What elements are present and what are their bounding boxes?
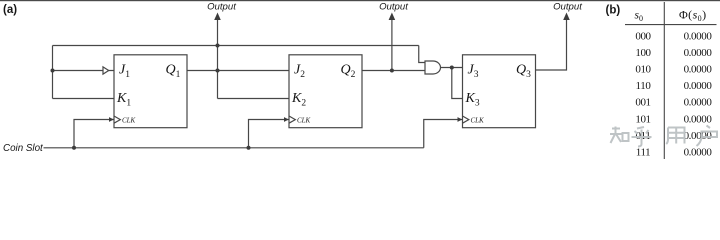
flip-flop U1 box bbox=[114, 55, 187, 128]
watermark glyph hu bbox=[632, 127, 652, 147]
wire branch to K2 bbox=[218, 98, 290, 100]
wire CLK2 from coin rail bbox=[249, 120, 290, 148]
svg-text:Φ(s0): Φ(s0) bbox=[679, 8, 706, 24]
wire feedback drop to AND input bbox=[419, 46, 425, 63]
table header rule bbox=[625, 24, 717, 26]
arrowhead output1 bbox=[214, 13, 221, 21]
wire output1 riser bbox=[217, 19, 219, 99]
watermark glyph hu2 bbox=[697, 126, 718, 147]
svg-text:0.0000: 0.0000 bbox=[684, 47, 713, 59]
svg-text:J1: J1 bbox=[119, 63, 130, 81]
svg-text:Output: Output bbox=[553, 2, 582, 13]
svg-text:Q1: Q1 bbox=[166, 63, 181, 81]
svg-text:Output: Output bbox=[207, 2, 236, 13]
arrowhead CLK1 bbox=[109, 117, 114, 122]
svg-text:001: 001 bbox=[635, 97, 650, 109]
node J1K1 junction bbox=[51, 69, 55, 73]
AND gate U4 bbox=[425, 61, 441, 74]
svg-text:CLK: CLK bbox=[122, 117, 136, 125]
svg-text:010: 010 bbox=[635, 64, 651, 76]
clock triangle U3 bbox=[463, 116, 469, 123]
wire J1 input bbox=[53, 70, 115, 72]
flip-flop U3 box bbox=[463, 55, 536, 128]
svg-text:Q3: Q3 bbox=[516, 63, 531, 81]
wire Q1 to J2 bbox=[187, 70, 289, 72]
arrowhead CLK2 bbox=[284, 117, 289, 122]
svg-text:110: 110 bbox=[636, 80, 652, 92]
svg-text:0.0000: 0.0000 bbox=[684, 147, 713, 159]
wire Q3 out bbox=[536, 19, 567, 70]
watermark glyph zhi bbox=[610, 127, 622, 144]
top border line bbox=[0, 0, 720, 1]
wire coin slot rail bbox=[44, 147, 424, 149]
node feedback line junction bbox=[216, 44, 220, 48]
table column divider bbox=[663, 2, 665, 159]
svg-text:Coin Slot: Coin Slot bbox=[3, 143, 44, 154]
clock triangle U2 bbox=[289, 116, 295, 123]
svg-text:000: 000 bbox=[635, 30, 651, 42]
svg-text:CLK: CLK bbox=[297, 117, 311, 125]
wire left rail J1/K1 bbox=[52, 46, 54, 99]
clock triangle U1 bbox=[114, 116, 120, 123]
svg-text:0.0000: 0.0000 bbox=[684, 30, 713, 42]
svg-text:K3: K3 bbox=[465, 91, 480, 109]
wire top feedback net bbox=[53, 45, 419, 47]
wire Q2 to AND gate bbox=[362, 70, 425, 72]
svg-text:0.0000: 0.0000 bbox=[684, 113, 713, 125]
arrowhead CLK3 bbox=[458, 117, 463, 122]
svg-text:(b): (b) bbox=[606, 5, 621, 17]
arrowhead output3 bbox=[563, 13, 570, 21]
node AND output junction bbox=[450, 66, 454, 70]
svg-text:s0: s0 bbox=[635, 10, 643, 24]
svg-text:(a): (a) bbox=[3, 4, 17, 16]
node CLK1 rail junction bbox=[72, 146, 76, 150]
svg-text:100: 100 bbox=[635, 47, 651, 59]
svg-text:101: 101 bbox=[635, 113, 650, 125]
watermark glyph yong bbox=[666, 128, 684, 145]
svg-text:Output: Output bbox=[379, 2, 408, 13]
node Q2 output junction bbox=[390, 69, 394, 73]
svg-text:0.0000: 0.0000 bbox=[684, 64, 713, 76]
svg-text:J2: J2 bbox=[294, 63, 305, 81]
arrow open on J1 wire bbox=[103, 67, 109, 74]
flip-flop U2 box bbox=[289, 55, 362, 128]
svg-text:0.0000: 0.0000 bbox=[684, 97, 713, 109]
node CLK2 rail junction bbox=[247, 146, 251, 150]
svg-text:CLK: CLK bbox=[471, 117, 485, 125]
svg-text:J3: J3 bbox=[468, 63, 479, 81]
wire branch to K3 bbox=[452, 68, 463, 99]
wire output2 riser bbox=[391, 19, 393, 71]
arrowhead output2 bbox=[389, 13, 396, 21]
wire AND output to J3 bbox=[441, 67, 463, 69]
svg-text:K1: K1 bbox=[116, 91, 131, 109]
wire CLK3 from coin rail bbox=[424, 120, 463, 148]
wire K1 input bbox=[53, 98, 115, 100]
svg-text:Q2: Q2 bbox=[341, 63, 356, 81]
svg-text:111: 111 bbox=[636, 147, 650, 159]
node Q1 output junction bbox=[216, 69, 220, 73]
svg-text:K2: K2 bbox=[291, 91, 306, 109]
wire CLK1 from coin rail bbox=[74, 120, 114, 148]
svg-text:0.0000: 0.0000 bbox=[684, 80, 713, 92]
